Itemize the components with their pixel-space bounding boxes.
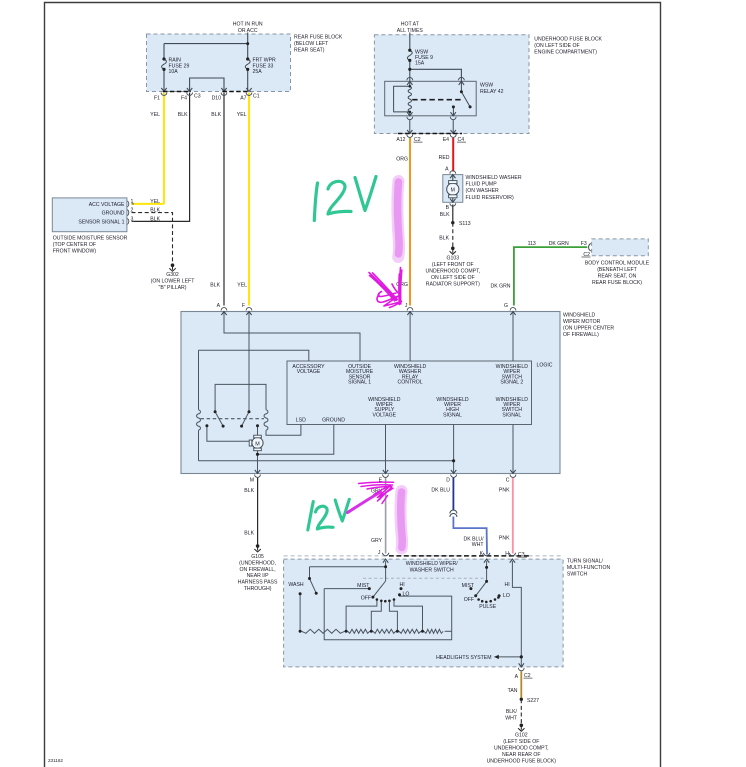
svg-text:WIPER MOTOR: WIPER MOTOR [563,319,601,325]
svg-text:25A: 25A [253,69,263,75]
svg-text:SIGNAL: SIGNAL [502,412,521,418]
svg-text:DK GRN: DK GRN [549,241,569,247]
svg-text:G102: G102 [515,733,528,739]
svg-text:DK BLU: DK BLU [431,488,450,494]
svg-text:(BENEATH LEFT: (BENEATH LEFT [597,267,637,273]
svg-text:(ON LOWER LEFT: (ON LOWER LEFT [151,279,196,285]
svg-text:(ON UPPER CENTER: (ON UPPER CENTER [563,326,614,332]
svg-text:(TOP CENTER OF: (TOP CENTER OF [53,242,96,248]
svg-text:A12: A12 [396,137,405,143]
svg-text:C3: C3 [194,94,201,100]
svg-text:RELAY 42: RELAY 42 [480,89,504,95]
svg-text:ON FIREWALL,: ON FIREWALL, [240,567,276,573]
svg-text:VOLTAGE: VOLTAGE [297,369,321,375]
svg-text:C: C [506,478,510,484]
svg-text:RADIATOR SUPPORT): RADIATOR SUPPORT) [426,282,480,288]
svg-text:HEADLIGHTS SYSTEM: HEADLIGHTS SYSTEM [436,655,491,661]
svg-text:HI: HI [505,582,510,588]
svg-text:D10: D10 [212,96,222,102]
svg-text:(UNDERHOOD,: (UNDERHOOD, [239,560,276,566]
svg-text:OF FIREWALL): OF FIREWALL) [563,332,599,338]
svg-text:GROUND: GROUND [102,211,125,217]
svg-text:A: A [217,303,221,309]
svg-text:C1: C1 [253,94,260,100]
svg-text:UNDERHOOD COMPT,: UNDERHOOD COMPT, [426,269,481,275]
svg-text:MIST: MIST [462,583,475,589]
svg-text:UNDERHOOD COMPT,: UNDERHOOD COMPT, [494,746,549,752]
svg-text:G302: G302 [166,272,179,278]
svg-text:BLK: BLK [150,217,160,223]
svg-text:WINDSHIELD WASHER: WINDSHIELD WASHER [466,175,522,181]
svg-text:J: J [378,550,381,556]
svg-text:HOT IN RUN: HOT IN RUN [233,22,263,28]
svg-text:THROUGH): THROUGH) [244,586,272,592]
svg-text:SENSOR SIGNAL 1: SENSOR SIGNAL 1 [78,220,124,226]
svg-text:HOT AT: HOT AT [401,22,420,28]
svg-text:ON LEFT SIDE OF: ON LEFT SIDE OF [431,275,475,281]
svg-text:(ON LEFT SIDE OF: (ON LEFT SIDE OF [534,43,579,49]
svg-text:YEL: YEL [237,112,247,118]
svg-text:LSD: LSD [296,418,306,424]
svg-text:WHT: WHT [472,542,485,548]
svg-text:WASHER SWITCH: WASHER SWITCH [410,568,454,574]
svg-text:ORG: ORG [396,157,408,163]
svg-text:ENGINE COMPARTMENT): ENGINE COMPARTMENT) [534,50,597,56]
svg-text:BLK: BLK [244,488,254,494]
svg-text:GRY: GRY [371,538,383,544]
svg-text:113: 113 [528,241,536,247]
svg-text:PULSE: PULSE [479,604,496,610]
svg-text:BLK: BLK [178,112,188,118]
svg-text:NEAR I/P: NEAR I/P [247,573,270,579]
svg-text:BLK: BLK [210,283,220,289]
svg-text:WINDSHIELD: WINDSHIELD [563,313,596,319]
svg-text:ORG: ORG [396,282,408,288]
svg-text:YEL: YEL [237,283,247,289]
svg-text:D: D [446,478,450,484]
svg-text:UNDERHOOD FUSE BLOCK): UNDERHOOD FUSE BLOCK) [487,759,557,765]
svg-text:WASH: WASH [288,582,304,588]
svg-text:REAR SEAT): REAR SEAT) [294,48,325,54]
svg-text:F1: F1 [154,96,160,102]
svg-text:(LEFT FRONT OF: (LEFT FRONT OF [432,262,474,268]
svg-text:DK GRN: DK GRN [491,284,511,290]
svg-text:SIGNAL: SIGNAL [443,412,462,418]
svg-text:RED: RED [439,155,450,161]
svg-text:SIGNAL 1: SIGNAL 1 [348,380,371,386]
svg-text:BLK: BLK [440,212,450,218]
svg-text:OUTSIDE MOISTURE SENSOR: OUTSIDE MOISTURE SENSOR [53,236,128,242]
svg-text:MULTI-FUNCTION: MULTI-FUNCTION [567,565,611,571]
svg-text:(BELOW LEFT: (BELOW LEFT [294,41,329,47]
svg-text:G103: G103 [447,256,460,262]
svg-text:WSW: WSW [480,83,493,89]
svg-text:M: M [250,478,254,484]
svg-text:F: F [242,303,245,309]
svg-text:231162: 231162 [48,758,63,763]
svg-text:FRONT WINDOW): FRONT WINDOW) [53,248,97,254]
svg-text:HARNESS PASS: HARNESS PASS [238,580,278,586]
svg-text:G: G [504,303,508,309]
svg-text:F4: F4 [181,96,187,102]
svg-text:YEL: YEL [150,112,160,118]
svg-text:E4: E4 [443,137,449,143]
svg-text:(ON WASHER: (ON WASHER [466,188,500,194]
svg-text:LO: LO [403,592,410,598]
svg-text:BODY CONTROL MODULE: BODY CONTROL MODULE [585,261,650,267]
svg-text:M: M [255,441,260,447]
svg-text:MIST: MIST [357,583,370,589]
svg-text:NEAR REAR OF: NEAR REAR OF [502,752,541,758]
svg-text:"B" PILLAR): "B" PILLAR) [159,285,187,291]
svg-text:BLK/: BLK/ [506,709,518,715]
svg-text:A: A [515,674,519,680]
svg-text:10A: 10A [169,69,179,75]
svg-text:PNK: PNK [499,488,510,494]
svg-text:UNDERHOOD FUSE BLOCK: UNDERHOOD FUSE BLOCK [534,37,602,43]
svg-text:FLUID PUMP: FLUID PUMP [466,182,498,188]
svg-text:M: M [451,188,455,194]
svg-text:BLK: BLK [439,236,449,242]
svg-text:BLK: BLK [244,531,254,537]
svg-text:BLK: BLK [150,208,160,214]
svg-text:WINDSHIELD WIPER/: WINDSHIELD WIPER/ [406,561,459,567]
svg-text:FLUID RESERVOIR): FLUID RESERVOIR) [466,195,514,201]
svg-text:YEL: YEL [150,199,160,205]
svg-text:WHT: WHT [505,716,518,722]
svg-text:ACC VOLTAGE: ACC VOLTAGE [89,202,125,208]
svg-text:CONTROL: CONTROL [398,380,423,386]
svg-text:B: B [446,205,450,211]
svg-text:REAR SEAT, ON: REAR SEAT, ON [598,274,637,280]
svg-text:PNK: PNK [499,536,510,542]
svg-text:BLK: BLK [211,112,221,118]
svg-text:S227: S227 [527,698,539,704]
svg-text:SWITCH: SWITCH [567,572,588,578]
svg-text:HI: HI [400,582,405,588]
svg-text:TAN: TAN [508,688,518,694]
svg-text:G105: G105 [251,554,264,560]
svg-text:(LEFT SIDE OF: (LEFT SIDE OF [503,739,539,745]
svg-text:REAR FUSE BLOCK): REAR FUSE BLOCK) [592,280,642,286]
svg-text:GROUND: GROUND [322,418,345,424]
svg-text:S113: S113 [459,221,471,227]
svg-text:F3: F3 [581,241,587,247]
svg-text:OFF: OFF [464,597,474,603]
svg-text:A: A [445,167,449,173]
svg-text:LOGIC: LOGIC [537,363,553,369]
svg-text:VOLTAGE: VOLTAGE [373,412,397,418]
svg-text:15A: 15A [415,61,425,67]
svg-text:OFF: OFF [361,596,371,602]
svg-text:LO: LO [503,593,510,599]
svg-text:A7: A7 [240,96,246,102]
svg-text:REAR FUSE BLOCK: REAR FUSE BLOCK [294,35,343,41]
svg-text:SIGNAL 2: SIGNAL 2 [500,380,523,386]
svg-text:TURN SIGNAL/: TURN SIGNAL/ [567,559,604,565]
